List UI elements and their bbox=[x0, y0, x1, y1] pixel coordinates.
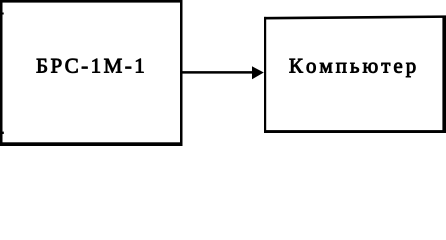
block Компьютер bbox=[264, 15, 446, 133]
block БРС-1М-1 bbox=[0, 0, 183, 146]
label Компьютер bbox=[290, 59, 416, 77]
label БРС-1М-1 bbox=[37, 59, 144, 73]
arrowhead bbox=[252, 66, 264, 79]
wire bbox=[182, 71, 254, 74]
